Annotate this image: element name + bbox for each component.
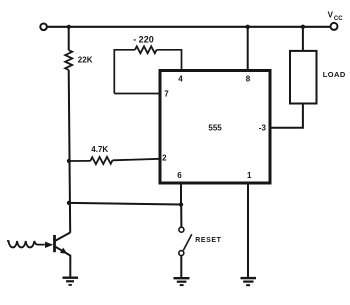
svg-text:1: 1 xyxy=(247,171,252,180)
wire: emitter down xyxy=(69,255,71,277)
svg-text:22K: 22K xyxy=(78,56,93,65)
wire: left vertical 22K to transistor collector xyxy=(69,70,71,233)
ground: emitter xyxy=(63,278,79,285)
wire: 4.7K right lead to pin 2 xyxy=(113,159,161,161)
junction: collector line / pin 6 xyxy=(179,202,183,206)
svg-text:6: 6 xyxy=(177,171,182,180)
svg-text:CC: CC xyxy=(334,16,343,22)
wire: 220 loop left+top xyxy=(114,50,135,94)
wire: pin 6 junction to switch xyxy=(180,205,182,228)
input arrow into base xyxy=(45,242,53,248)
svg-text:2: 2 xyxy=(162,154,167,163)
junction: rail / pin 8 wire xyxy=(246,25,250,29)
wire: switch to ground xyxy=(180,256,182,278)
wire: load to rail xyxy=(302,27,304,51)
wire: 220 loop bottom to pin 7 xyxy=(114,93,160,95)
svg-text:- 220: - 220 xyxy=(133,35,154,45)
wire: 4.7K left lead xyxy=(69,160,91,162)
wire: VCC top rail xyxy=(47,26,331,28)
resistor R1 22K xyxy=(65,50,72,70)
svg-text:V: V xyxy=(328,11,334,20)
wire: pin 3 to load bottom xyxy=(272,103,303,127)
junction: rail / load wire xyxy=(301,25,305,29)
resistor R3 4.7K xyxy=(90,157,112,164)
wire: input signal wavy lead xyxy=(7,241,45,247)
svg-text:-3: -3 xyxy=(259,123,267,132)
svg-text:4: 4 xyxy=(178,75,183,84)
load box xyxy=(290,51,317,104)
transistor Q1 emitter diagonal xyxy=(56,247,71,256)
svg-text:7: 7 xyxy=(164,90,169,99)
svg-text:4.7K: 4.7K xyxy=(91,145,108,154)
wire: 220 loop right to pin 4 xyxy=(157,50,182,70)
wire: horizontal collector line xyxy=(69,203,181,205)
svg-text:8: 8 xyxy=(246,75,251,84)
transistor Q1 collector diagonal xyxy=(56,233,71,241)
switch S1 lever xyxy=(183,234,192,250)
junction: left vertical / 4.7K xyxy=(67,159,71,163)
terminal: top-left open terminal xyxy=(40,24,47,31)
junction: collector line left xyxy=(67,201,71,205)
wire: pin 8 to rail xyxy=(247,27,249,70)
IC U1 555 xyxy=(160,71,270,184)
transistor Q1 emitter arrow xyxy=(60,248,67,254)
ground: under pin 1 xyxy=(241,278,257,285)
resistor R2 220 xyxy=(135,46,157,53)
ground: under switch xyxy=(174,278,190,285)
transistor Q1 base bar xyxy=(53,235,56,252)
terminal: VCC open terminal top-right xyxy=(331,23,338,30)
svg-text:555: 555 xyxy=(208,123,222,132)
wire: pin 6 down xyxy=(180,185,182,205)
switch S1 bottom contact xyxy=(179,251,184,256)
svg-text:LOAD: LOAD xyxy=(323,70,346,79)
wire: pin 1 to ground xyxy=(247,185,249,278)
svg-text:RESET: RESET xyxy=(195,237,221,244)
junction: rail / left vertical xyxy=(67,25,71,29)
wire: left vertical rail to 22K xyxy=(68,27,70,50)
switch S1 top contact xyxy=(179,227,184,232)
